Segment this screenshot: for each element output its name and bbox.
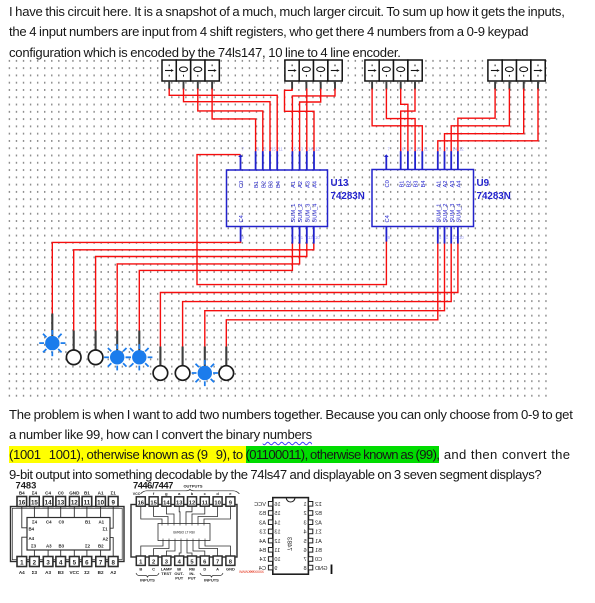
svg-text:C: C <box>152 567 155 572</box>
mirrored DIP pin 7 <box>308 557 312 562</box>
svg-text:11: 11 <box>202 500 209 506</box>
svg-text:Σ1: Σ1 <box>315 530 322 536</box>
7483 pin 6 (bottom) <box>82 557 92 567</box>
7446 pin 16 (top) <box>136 497 145 506</box>
7446 pin 9 (top) <box>226 497 235 506</box>
svg-text:***: *** <box>249 570 254 575</box>
probe X4 (lit) <box>104 344 130 370</box>
wire G2.2 to U13 A3 <box>306 89 308 152</box>
svg-text:C0: C0 <box>315 557 322 563</box>
svg-text:8: 8 <box>303 566 306 572</box>
svg-text:Σ2: Σ2 <box>315 502 322 508</box>
wire G1.1 to U13 B4 <box>169 89 277 152</box>
wire G4.2 to U9 A3 <box>451 89 509 152</box>
wire U13 C4 to probe X1 <box>52 242 240 314</box>
7483 pin9 lead <box>110 507 113 529</box>
svg-text:C4: C4 <box>46 520 52 525</box>
wire U13 SUM4 to probe X2 <box>74 244 314 331</box>
svg-text:A: A <box>216 567 219 572</box>
svg-text:13: 13 <box>176 500 183 506</box>
svg-text:10: 10 <box>97 499 104 506</box>
svg-text:12: 12 <box>274 539 280 545</box>
svg-text:13: 13 <box>274 530 280 536</box>
svg-text:A2: A2 <box>103 537 109 542</box>
wire U13 SUM2 to probe X4 <box>117 244 299 331</box>
7446 pin 3 (bottom) <box>162 556 171 565</box>
7446 pin 12 (top) <box>188 497 197 506</box>
svg-text:INPUTS: INPUTS <box>204 578 219 583</box>
wire U9 SUM4 to probe X6 <box>160 242 458 347</box>
7483 pin 15 (top) <box>30 497 40 507</box>
svg-text:4: 4 <box>303 530 306 536</box>
svg-text:B2: B2 <box>98 570 104 575</box>
probe X2 stem <box>73 331 75 351</box>
wire G3.4 to U9 B1 <box>401 89 415 152</box>
svg-text:C4: C4 <box>45 491 51 496</box>
7483 pin 16 (top) <box>17 497 27 507</box>
mirrored DIP pin 8 <box>308 565 312 570</box>
7483 pin 8 (bottom) <box>108 557 118 567</box>
wire G4.3 to U9 A2 <box>445 89 524 152</box>
mirrored DIP pin 1 <box>308 502 312 507</box>
svg-text:PUT: PUT <box>175 576 184 581</box>
7446 pin 11 (top) <box>200 497 209 506</box>
wire G3.2 to U9 B3 <box>386 89 415 152</box>
svg-text:12: 12 <box>189 500 195 506</box>
mirrored DIP pin 12 <box>268 538 272 543</box>
svg-text:16: 16 <box>18 499 25 506</box>
switch group G1 (4 DIP switches) <box>162 60 219 81</box>
probe X4 stem <box>116 331 118 351</box>
G2 switch 3 pin stub <box>320 81 322 90</box>
7483 pin 14 (top) <box>43 497 53 507</box>
wire G1.3 to U13 B2 <box>198 89 263 152</box>
mirrored DIP pin 3 <box>308 520 312 525</box>
svg-text:15: 15 <box>150 500 157 506</box>
7446 pin 2 (bottom) <box>149 556 158 565</box>
probe X1 (lit) <box>39 330 65 356</box>
svg-text:7: 7 <box>99 559 103 566</box>
7446 pin 4 (bottom) <box>175 556 184 565</box>
wire G2.1 to U13 A4 <box>285 89 315 152</box>
probe X6 stem <box>159 347 161 367</box>
svg-text:B1: B1 <box>315 548 322 554</box>
7483 pin 2 (bottom) <box>30 557 40 567</box>
svg-text:B1: B1 <box>85 520 91 525</box>
svg-text:d: d <box>216 491 219 496</box>
mirrored DIP pin 10 <box>268 557 272 562</box>
probe X5 stem <box>138 331 140 351</box>
svg-text:A1: A1 <box>315 539 322 545</box>
probe X5 (lit) <box>126 344 152 370</box>
7483 pin 3 (bottom) <box>43 557 53 567</box>
7446 pin 1 (bottom) <box>136 556 145 565</box>
svg-text:5: 5 <box>303 539 306 545</box>
svg-text:2: 2 <box>152 560 155 566</box>
mirrored DIP pin 16 <box>268 502 272 507</box>
svg-text:C0: C0 <box>58 491 64 496</box>
7446 pin 15 (top) <box>149 497 158 506</box>
7483 pin 11 (top) <box>82 497 92 507</box>
7446 pin 10 (top) <box>213 497 222 506</box>
wire U9 C4 to U13 C0 (carry link) <box>197 155 386 285</box>
G3 switch 3 pin stub <box>400 81 402 90</box>
svg-text:7: 7 <box>303 557 306 563</box>
svg-text:1: 1 <box>303 502 306 508</box>
G3 switch 1 pin stub <box>371 81 373 90</box>
svg-text:9: 9 <box>111 499 115 506</box>
svg-text:Σ2: Σ2 <box>85 544 91 549</box>
7483 pin 12 (top) <box>70 497 80 507</box>
svg-text:A1: A1 <box>99 520 105 525</box>
svg-text:TEST: TEST <box>161 571 172 576</box>
7483 pin 5 (bottom) <box>70 557 80 567</box>
svg-text:B4: B4 <box>19 491 25 496</box>
figure: mirrored 7483 DIP pinout <box>254 498 327 575</box>
G2 switch 1 pin stub <box>291 81 293 90</box>
svg-text:15: 15 <box>31 499 38 506</box>
svg-text:B3: B3 <box>59 544 65 549</box>
wire G3.1 to U9 B4 <box>372 89 422 152</box>
7483 pin1 lead <box>22 537 27 556</box>
7446 pin 5 (bottom) <box>188 556 197 565</box>
mirrored DIP pin 9 <box>268 565 272 570</box>
svg-text:f: f <box>153 491 155 496</box>
G2 switch 4 pin stub <box>334 81 336 90</box>
svg-text:c: c <box>204 491 207 496</box>
svg-text:C0: C0 <box>59 520 65 525</box>
mirrored DIP pin 5 <box>308 538 312 543</box>
svg-text:8: 8 <box>111 559 115 566</box>
mirrored DIP pin 11 <box>268 548 272 553</box>
7483 pin 1 (bottom) <box>17 557 27 567</box>
7483 pin 10 (top) <box>96 497 106 507</box>
inner block ticks 7446 <box>162 524 205 541</box>
paragraph 2 <box>9 405 573 486</box>
G1 switch 1 pin stub <box>168 81 170 90</box>
7446 pin 13 (top) <box>175 497 184 506</box>
svg-text:Σ3: Σ3 <box>32 570 38 575</box>
svg-text:2: 2 <box>33 559 37 566</box>
svg-text:14: 14 <box>274 520 280 526</box>
svg-text:C4: C4 <box>259 566 266 572</box>
switch group G4 (4 DIP switches) <box>488 60 545 81</box>
wire U13 SUM1 to probe X5 <box>139 244 292 331</box>
svg-text:B2: B2 <box>98 544 104 549</box>
svg-text:INPUTS: INPUTS <box>140 578 155 583</box>
mirrored DIP pin 13 <box>268 529 272 534</box>
svg-text:A2: A2 <box>110 570 116 575</box>
G3 switch 2 pin stub <box>385 81 387 90</box>
probe X9 (off) <box>219 366 234 381</box>
mirrored DIP pin 6 <box>308 548 312 553</box>
IC U13 74283N (4-bit adder) <box>227 151 328 243</box>
7483 pin8 lead <box>110 538 113 557</box>
svg-text:e: e <box>229 491 232 496</box>
svg-text:A1: A1 <box>98 491 104 496</box>
svg-text:14: 14 <box>163 500 170 506</box>
wire G2.3 to U13 A2 <box>300 89 321 152</box>
wire G4.1 to U9 A4 <box>458 89 495 152</box>
wire G4.4 to U9 A1 <box>438 89 538 152</box>
svg-text:a: a <box>178 491 181 496</box>
probe X3 stem <box>95 331 97 351</box>
svg-text:B4: B4 <box>29 527 35 532</box>
svg-text:VCC: VCC <box>69 570 79 575</box>
svg-text:b: b <box>191 491 194 496</box>
wire U9 SUM3 to probe X7 <box>183 242 452 347</box>
paragraph 1 <box>9 2 565 64</box>
svg-text:11: 11 <box>84 499 91 506</box>
svg-text:6: 6 <box>85 559 89 566</box>
switch group G3 (4 DIP switches) <box>365 60 422 81</box>
svg-text:GND: GND <box>69 491 80 496</box>
IC package 7446 outline <box>131 505 237 558</box>
probe X7 (off) <box>175 366 190 381</box>
wire G1.4 to U13 B1 <box>212 89 256 152</box>
probe X6 (off) <box>153 366 168 381</box>
svg-text:Σ4: Σ4 <box>259 557 266 563</box>
probe X7 stem <box>182 347 184 367</box>
svg-text:B: B <box>139 567 142 572</box>
svg-text:B3: B3 <box>259 511 266 517</box>
label INPUTS braces <box>136 573 159 577</box>
G4 switch 2 pin stub <box>508 81 510 90</box>
wire G1.2 to U13 B3 <box>184 89 271 152</box>
svg-text:9: 9 <box>274 566 277 572</box>
G4 switch 3 pin stub <box>523 81 525 90</box>
G1 switch 2 pin stub <box>183 81 185 90</box>
mirrored DIP pin 2 <box>308 511 312 516</box>
text cursor <box>331 565 333 575</box>
svg-text:3: 3 <box>303 520 306 526</box>
svg-text:11: 11 <box>274 548 280 554</box>
probe X3 (off) <box>88 350 103 365</box>
svg-text:Σ3: Σ3 <box>259 530 266 536</box>
wire U9 SUM2 to probe X8 <box>205 242 445 347</box>
IC U9 74283N (4-bit adder) <box>372 151 474 243</box>
svg-text:Σ1: Σ1 <box>111 491 117 496</box>
svg-text:6: 6 <box>303 548 306 554</box>
svg-text:Σ4: Σ4 <box>32 520 38 525</box>
wire U13 SUM3 to probe X3 <box>96 244 307 331</box>
svg-text:4: 4 <box>59 559 63 566</box>
svg-text:16: 16 <box>138 500 145 506</box>
svg-text:A3: A3 <box>46 544 52 549</box>
svg-text:A4: A4 <box>29 536 35 541</box>
7446 pin 7 (bottom) <box>213 556 222 565</box>
G4 switch 4 pin stub <box>537 81 539 90</box>
svg-text:5: 5 <box>73 559 77 566</box>
svg-text:7483: 7483 <box>286 536 293 551</box>
7446 pin 8 (bottom) <box>226 556 235 565</box>
svg-text:VCC: VCC <box>133 492 141 496</box>
svg-text:A4: A4 <box>259 539 266 545</box>
svg-text:15: 15 <box>274 511 280 517</box>
7483 pin 9 (top) <box>108 497 118 507</box>
G1 switch 4 pin stub <box>211 81 213 90</box>
probe X2 (off) <box>66 350 81 365</box>
svg-text:10: 10 <box>214 500 220 506</box>
G3 switch 4 pin stub <box>414 81 416 90</box>
svg-text:7483: 7483 <box>16 480 37 491</box>
7446 pin 14 (top) <box>162 497 171 506</box>
svg-text:B2: B2 <box>315 511 322 517</box>
7483 pin 7 (bottom) <box>96 557 106 567</box>
wire U9 SUM1 to probe X9 <box>226 242 437 347</box>
svg-text:16: 16 <box>274 502 280 508</box>
svg-text:VCC: VCC <box>254 502 266 508</box>
svg-text:g: g <box>165 491 168 496</box>
G4 switch 1 pin stub <box>494 81 496 90</box>
svg-text:7: 7 <box>216 560 219 566</box>
svg-text:12: 12 <box>71 499 78 506</box>
svg-text:7446/7447: 7446/7447 <box>133 480 173 491</box>
7483 pin16 lead <box>22 507 27 528</box>
svg-text:1: 1 <box>20 559 24 566</box>
mirrored DIP pin 14 <box>268 520 272 525</box>
svg-text:B1: B1 <box>84 491 90 496</box>
svg-text:BI/RBO LT RBI: BI/RBO LT RBI <box>173 531 194 535</box>
svg-text:Σ3: Σ3 <box>31 544 37 549</box>
svg-text:A3: A3 <box>259 520 266 526</box>
wire G2.4 to U13 A1 <box>292 89 335 152</box>
svg-text:GND: GND <box>226 567 235 572</box>
switch group G2 (4 DIP switches) <box>285 60 342 81</box>
svg-text:B4: B4 <box>259 548 266 554</box>
svg-text:B3: B3 <box>58 570 64 575</box>
mirrored DIP pin 4 <box>308 529 312 534</box>
svg-text:Σ1: Σ1 <box>103 527 109 532</box>
mirrored DIP pin 15 <box>268 511 272 516</box>
G1 switch 3 pin stub <box>197 81 199 90</box>
probe X1 stem <box>51 314 53 337</box>
IC package 7483 outline <box>11 507 125 562</box>
svg-text:Σ2: Σ2 <box>84 570 90 575</box>
svg-text:A4: A4 <box>19 570 25 575</box>
7483 pin 13 (top) <box>56 497 66 507</box>
svg-text:A2: A2 <box>315 520 322 526</box>
svg-text:A3: A3 <box>45 570 51 575</box>
svg-text:10: 10 <box>274 557 280 563</box>
wire G3.3 to U9 B2 <box>401 89 408 152</box>
svg-text:OUTPUTS: OUTPUTS <box>183 484 202 489</box>
7483 pin 4 (bottom) <box>56 557 66 567</box>
7446 pin 6 (bottom) <box>200 556 209 565</box>
svg-text:2: 2 <box>303 511 306 517</box>
svg-text:14: 14 <box>45 499 52 506</box>
probe X8 stem <box>204 347 206 367</box>
svg-text:3: 3 <box>46 559 50 566</box>
svg-text:13: 13 <box>57 499 64 506</box>
svg-text:D: D <box>203 567 206 572</box>
svg-text:GND: GND <box>315 566 327 572</box>
probe X8 (lit) <box>192 360 218 386</box>
svg-text:Σ4: Σ4 <box>32 491 38 496</box>
G2 switch 2 pin stub <box>305 81 307 90</box>
svg-text:PUT: PUT <box>188 576 197 581</box>
probe X9 stem <box>225 347 227 367</box>
